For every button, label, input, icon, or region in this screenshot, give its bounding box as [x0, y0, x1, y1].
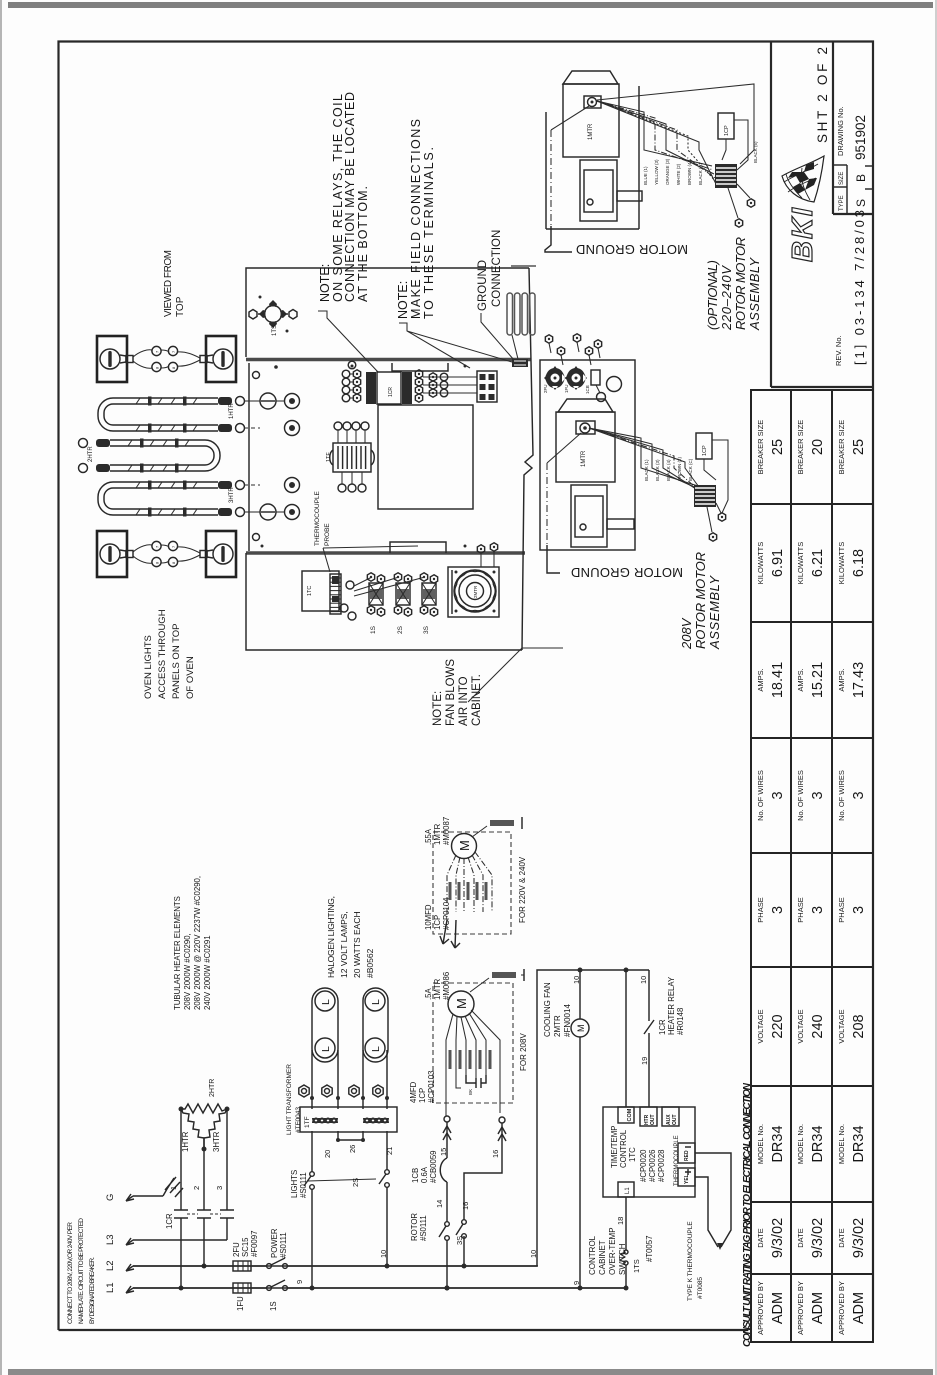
svg-text:208V 2000W @ 220V 2237W #C0290: 208V 2000W @ 220V 2237W #C0290, [193, 876, 202, 1010]
svg-text:1CP: 1CP [702, 445, 708, 456]
svg-text:19: 19 [640, 1057, 649, 1065]
assembly outline 208V [540, 360, 635, 550]
svg-text:3: 3 [851, 791, 867, 799]
oven switch 3S [354, 577, 425, 596]
svg-text:BLACK (C): BLACK (C) [688, 458, 693, 481]
svg-text:20: 20 [323, 1150, 332, 1158]
heater wire 2 [203, 1149, 205, 1210]
wire bundle to plug [589, 428, 698, 486]
oven switch 1S [354, 577, 372, 586]
svg-text:PANELS ON TOP: PANELS ON TOP [171, 624, 182, 700]
svg-text:1TS: 1TS [272, 325, 278, 336]
svg-text:SC15: SC15 [241, 1237, 250, 1257]
svg-text:L: L [320, 999, 332, 1005]
svg-text:1CR: 1CR [165, 1213, 174, 1229]
svg-text:9/3/02: 9/3/02 [810, 1218, 826, 1258]
svg-text:MOTOR GROUND: MOTOR GROUND [576, 242, 688, 257]
cell APPROVED BY row1 [751, 1341, 791, 1343]
svg-text:#T0085: #T0085 [697, 1277, 704, 1299]
junction dot bus9 end [624, 1286, 629, 1291]
svg-text:#CP0026: #CP0026 [648, 1149, 657, 1182]
oven control box (white) [378, 405, 473, 509]
svg-text:15.21: 15.21 [810, 662, 826, 698]
svg-text:ADM: ADM [851, 1292, 867, 1324]
svg-text:ACCESS THROUGH: ACCESS THROUGH [157, 609, 168, 699]
svg-text:18.41: 18.41 [770, 662, 786, 698]
svg-text:TO THESE TERMINALS.: TO THESE TERMINALS. [422, 147, 436, 319]
svg-text:CABINET: CABINET [598, 1240, 607, 1275]
oven panel divider upper [246, 358, 531, 362]
oven panel divider lower [246, 551, 525, 555]
capacitor 1CP (220-240V) [718, 113, 734, 139]
plug terminals [716, 503, 721, 513]
switch LIGHTS 2S [310, 1172, 315, 1177]
svg-text:1FU: 1FU [564, 384, 569, 393]
halogen lamp pair x375 [363, 988, 388, 1062]
svg-text:S: S [854, 199, 868, 207]
svg-text:#R0148: #R0148 [676, 1008, 685, 1035]
svg-text:#CP0028: #CP0028 [657, 1149, 666, 1182]
cell DATE row2 [791, 1273, 832, 1275]
heater element 2HTR [110, 440, 205, 446]
svg-text:MODEL No.: MODEL No. [837, 1124, 846, 1164]
svg-text:220: 220 [770, 1014, 786, 1038]
cell KILOWATTS row1 [751, 621, 791, 623]
svg-text:OUT: OUT [672, 1114, 678, 1125]
svg-text:THERMOCOUPLE: THERMOCOUPLE [314, 490, 321, 546]
svg-text:1CP: 1CP [724, 125, 730, 136]
svg-text:3: 3 [810, 791, 826, 799]
gearbox 220-240V [580, 160, 617, 221]
svg-text:14: 14 [435, 1200, 444, 1208]
svg-text:ROTOR: ROTOR [410, 1213, 419, 1241]
svg-text:DR34: DR34 [810, 1125, 826, 1162]
svg-text:L2: L2 [105, 1260, 116, 1271]
svg-text:2S: 2S [397, 625, 404, 634]
svg-text:KILOWATTS: KILOWATTS [796, 542, 805, 585]
cell AMPS. row3 [832, 737, 873, 739]
svg-text:No. OF WIRES: No. OF WIRES [796, 770, 805, 821]
svg-text:(OPTIONAL): (OPTIONAL) [705, 260, 720, 330]
svg-text:HALOGEN LIGHTING,: HALOGEN LIGHTING, [326, 896, 336, 978]
svg-text:OF OVEN: OF OVEN [185, 656, 196, 699]
svg-text:L: L [370, 1046, 382, 1052]
svg-text:VOLTAGE: VOLTAGE [756, 1009, 765, 1043]
svg-text:L1: L1 [105, 1282, 116, 1293]
svg-text:#CP0020: #CP0020 [639, 1149, 648, 1182]
thermocouple leads [695, 1153, 731, 1247]
svg-text:No. OF WIRES: No. OF WIRES [756, 770, 765, 821]
svg-text:MODEL No.: MODEL No. [796, 1124, 805, 1164]
oven light fixture at 221,554 [206, 531, 236, 577]
svg-text:2FU: 2FU [232, 1242, 241, 1257]
transformer 1TF (oven) [333, 443, 371, 472]
svg-text:1FU: 1FU [236, 1296, 245, 1311]
svg-text:BKI: BKI [787, 207, 819, 262]
oven main section [248, 363, 250, 551]
terminal AUX OUT [662, 1107, 679, 1126]
svg-text:#CB0059: #CB0059 [429, 1150, 438, 1183]
svg-text:#TF0043: #TF0043 [295, 1107, 302, 1133]
tab on main section top [392, 363, 448, 371]
svg-text:TUBULAR HEATER ELEMENTS: TUBULAR HEATER ELEMENTS [173, 896, 182, 1010]
svg-text:3: 3 [770, 791, 786, 799]
ground lead 208V motor [470, 978, 489, 992]
heater wire 3 [226, 1109, 228, 1210]
svg-text:PHASE: PHASE [837, 897, 846, 922]
motor ground dash-dot wire [547, 433, 581, 463]
svg-text:G: G [105, 1194, 116, 1201]
connector plug (208V) [694, 485, 716, 507]
cell No. OF WIRES row2 [791, 852, 832, 854]
svg-text:1HTR: 1HTR [181, 1131, 190, 1152]
svg-text:9/3/02: 9/3/02 [770, 1218, 786, 1258]
cell BREAKER SIZE row3 [832, 503, 873, 505]
svg-text:TOP: TOP [175, 296, 186, 317]
cell DATE row3 [832, 1273, 873, 1275]
halogen lamp pair x323 [312, 988, 338, 1062]
svg-text:12 VOLT LAMPS,: 12 VOLT LAMPS, [339, 911, 349, 978]
fuse 1FU [233, 1283, 251, 1293]
svg-text:SIZE: SIZE [839, 172, 845, 185]
svg-text:No. OF WIRES: No. OF WIRES [837, 770, 846, 821]
svg-text:1CB: 1CB [411, 1168, 420, 1183]
svg-text:1TF: 1TF [326, 452, 332, 462]
svg-text:1S: 1S [269, 1301, 278, 1311]
svg-text:17.43: 17.43 [851, 662, 867, 698]
svg-text:POWER: POWER [270, 1228, 279, 1258]
svg-text:1CP: 1CP [418, 1088, 427, 1103]
COM feed wire [625, 970, 627, 1107]
terminal YEL + [678, 1168, 695, 1186]
svg-text:1MTR: 1MTR [588, 123, 594, 140]
svg-text:FOR 220V & 240V: FOR 220V & 240V [518, 856, 527, 923]
exit arrows to 15/16 [440, 920, 460, 948]
svg-text:0.6A: 0.6A [420, 1166, 429, 1183]
svg-text:208V 2000W #C0290,: 208V 2000W #C0290, [183, 933, 192, 1010]
cell APPROVED BY row2 [791, 1341, 832, 1343]
control 1TC (oven) [302, 571, 339, 611]
svg-text:CONTROL: CONTROL [588, 1235, 597, 1275]
cell MODEL No. row2 [791, 1201, 832, 1203]
svg-text:CONNECTION: CONNECTION [491, 230, 503, 307]
svg-text:NOTE:: NOTE: [396, 281, 410, 319]
svg-text:ADM: ADM [770, 1292, 786, 1324]
svg-text:208: 208 [851, 1014, 867, 1038]
svg-text:1: 1 [169, 1186, 178, 1190]
svg-text:2: 2 [192, 1186, 201, 1190]
svg-text:240: 240 [810, 1014, 826, 1038]
motor fan wires [446, 1010, 500, 1113]
svg-text:10: 10 [639, 976, 648, 984]
svg-text:B: B [854, 174, 868, 182]
heater relay contact 1CR [644, 970, 654, 1107]
svg-text:MOTOR GROUND: MOTOR GROUND [571, 565, 683, 580]
oven top panel (1TS section) [246, 268, 529, 357]
oven light fixture at 221,359 [206, 336, 236, 382]
bus 10 [133, 1265, 537, 1267]
cell BREAKER SIZE row1 [751, 503, 791, 505]
fuse 1FU (assembly) [565, 366, 587, 390]
oven switch 2S [354, 577, 399, 591]
svg-text:9/3/02: 9/3/02 [851, 1218, 867, 1258]
svg-text:2MTR: 2MTR [473, 585, 478, 598]
cell PHASE row1 [751, 966, 791, 968]
svg-text:10: 10 [572, 976, 581, 984]
svg-text:2HTR: 2HTR [88, 446, 94, 462]
bus 9 [133, 1287, 626, 1289]
svg-text:21: 21 [385, 1147, 394, 1155]
svg-text:LIGHT TRANSFORMER: LIGHT TRANSFORMER [286, 1064, 293, 1135]
svg-text:.55A: .55A [424, 828, 433, 845]
svg-text:ORANGE (3): ORANGE (3) [665, 158, 670, 185]
supply wire L2 [133, 1265, 538, 1267]
svg-text:BROWN (2): BROWN (2) [677, 457, 682, 482]
lamp leads [312, 1050, 387, 1109]
svg-text:APPROVED BY: APPROVED BY [756, 1281, 765, 1335]
svg-text:2FU: 2FU [543, 384, 548, 393]
motor 1MTR 208V (schematic) [448, 991, 474, 1017]
cell VOLTAGE row2 [791, 1085, 832, 1087]
svg-text:220–240V: 220–240V [719, 265, 734, 331]
scanner grey bar bottom [8, 1369, 933, 1375]
svg-text:10MFD: 10MFD [424, 904, 433, 930]
svg-text:#S0111: #S0111 [299, 1172, 308, 1198]
cell No. OF WIRES row3 [832, 852, 873, 854]
svg-text:25: 25 [770, 439, 786, 455]
svg-text:3: 3 [851, 906, 867, 914]
terminal HTR OUT [640, 1107, 657, 1126]
svg-text:BK: BK [468, 1089, 473, 1095]
svg-text:1CP: 1CP [433, 915, 442, 930]
resistor 3HTR (delta right) [204, 1109, 227, 1147]
svg-text:AMPS.: AMPS. [796, 668, 805, 691]
terminal RED - [678, 1143, 695, 1163]
svg-text:M: M [454, 998, 469, 1009]
long lead to BLACK (5) [597, 84, 754, 164]
svg-text:YEL: YEL [684, 1174, 690, 1184]
lamp jumper wires and bead terminals [133, 350, 200, 368]
resistor 2HTR (delta top) [181, 1104, 227, 1113]
svg-text:10: 10 [379, 1250, 388, 1258]
heater feedthrough terminals on oven wall [244, 400, 260, 402]
svg-text:LIGHTS: LIGHTS [290, 1170, 299, 1198]
svg-text:20 WATTS EACH: 20 WATTS EACH [352, 911, 362, 978]
terminal 8 [322, 1085, 332, 1097]
cell DATE row1 [751, 1273, 791, 1275]
svg-text:AMPS.: AMPS. [837, 668, 846, 691]
svg-text:BLUE (1): BLUE (1) [643, 166, 648, 185]
switch 3S pole A [445, 1222, 450, 1227]
terminal L1 [618, 1182, 634, 1197]
svg-text:L1: L1 [625, 1187, 631, 1194]
svg-text:951902: 951902 [853, 115, 868, 160]
title block bottom border [771, 386, 873, 388]
fuse 2FU (assembly) [544, 366, 566, 390]
svg-text:AT THE BOTTOM.: AT THE BOTTOM. [356, 186, 370, 302]
svg-text:VOLTAGE: VOLTAGE [796, 1009, 805, 1043]
field connection terminal block 1TB [477, 371, 497, 402]
svg-text:TYPE K THERMOCOUPLE: TYPE K THERMOCOUPLE [687, 1221, 694, 1301]
svg-text:#S0111: #S0111 [419, 1215, 428, 1241]
svg-text:3: 3 [770, 906, 786, 914]
svg-text:PROBE: PROBE [324, 523, 331, 546]
svg-text:2S: 2S [351, 1178, 360, 1187]
tick S|B [865, 188, 873, 190]
rating table row 2 outline [791, 390, 832, 1342]
title block left border [770, 41, 772, 387]
svg-text:16: 16 [461, 1202, 470, 1210]
resistor 1HTR (delta left) [181, 1109, 204, 1147]
svg-text:#T0057: #T0057 [645, 1236, 654, 1262]
cell KILOWATTS row2 [791, 621, 832, 623]
cell KILOWATTS row3 [832, 621, 873, 623]
BKI logo [782, 156, 824, 262]
svg-text:DATE: DATE [837, 1228, 846, 1247]
svg-text:240V 2000W #C0291: 240V 2000W #C0291 [203, 935, 212, 1010]
svg-text:ADM: ADM [810, 1292, 826, 1324]
svg-text:2HTR: 2HTR [209, 1079, 216, 1097]
supply wire G [133, 1195, 163, 1197]
svg-text:CONNECTION MAY BE LOCATED: CONNECTION MAY BE LOCATED [343, 92, 357, 302]
terminal 11 [349, 1085, 359, 1097]
svg-text:3HTR: 3HTR [212, 1131, 221, 1152]
svg-text:BREAKER SIZE: BREAKER SIZE [796, 420, 805, 475]
spare hole [607, 377, 622, 392]
svg-text:9: 9 [295, 1280, 304, 1284]
wire 15/14 with breaker and 3S [444, 1116, 450, 1122]
svg-text:1TC: 1TC [628, 1147, 637, 1162]
cell APPROVED BY row3 [832, 1341, 873, 1343]
thermostat 1TS [265, 306, 282, 323]
svg-text:KILOWATTS: KILOWATTS [837, 542, 846, 585]
motor 1MTR 220-240V (schematic) [452, 834, 477, 859]
svg-text:3S: 3S [423, 625, 430, 634]
svg-text:3S: 3S [455, 1236, 464, 1245]
svg-text:BREAKER SIZE: BREAKER SIZE [756, 420, 765, 475]
svg-text:RED: RED [684, 1150, 690, 1161]
ground symbol [163, 1177, 183, 1197]
svg-text:APPROVED BY: APPROVED BY [837, 1281, 846, 1335]
svg-text:TIME/TEMP: TIME/TEMP [610, 1126, 619, 1168]
svg-text:ASSEMBLY: ASSEMBLY [707, 575, 722, 650]
svg-text:16: 16 [491, 1150, 500, 1158]
switch POWER #S0111 [266, 1261, 288, 1270]
svg-text:CONNECT TO 208V, 220V,OR 240V: CONNECT TO 208V, 220V,OR 240V PER [67, 1222, 74, 1324]
svg-text:CONSULT UNIT RATING TAG PRIOR: CONSULT UNIT RATING TAG PRIOR TO ELECTRI… [742, 1082, 753, 1347]
cell AMPS. row2 [791, 737, 832, 739]
svg-text:#B0562: #B0562 [365, 948, 375, 978]
svg-text:6.91: 6.91 [770, 549, 786, 577]
cell BREAKER SIZE row2 [791, 503, 832, 505]
svg-text:OVEN LIGHTS: OVEN LIGHTS [143, 635, 154, 699]
svg-text:TYPE: TYPE [839, 195, 845, 211]
svg-text:1MTR: 1MTR [581, 450, 587, 467]
svg-text:#S0111: #S0111 [279, 1232, 288, 1258]
svg-text:VIEWED FROM: VIEWED FROM [163, 250, 174, 317]
wires below transformer [312, 1131, 387, 1172]
svg-text:BLACK (4): BLACK (4) [666, 459, 671, 481]
svg-text:3HTR: 3HTR [229, 487, 235, 503]
svg-text:NOTE:: NOTE: [432, 691, 444, 726]
svg-text:BROWN (4): BROWN (4) [687, 161, 692, 186]
switch 1S [266, 1283, 288, 1292]
svg-text:CONTROL: CONTROL [619, 1129, 628, 1168]
page edge shading left [0, 0, 2, 1375]
oven cut break edge [522, 268, 533, 650]
svg-text:#F0097: #F0097 [250, 1231, 259, 1257]
svg-text:ASSEMBLY: ASSEMBLY [747, 257, 762, 331]
svg-text:L: L [370, 999, 382, 1005]
svg-text:FOR 208V: FOR 208V [519, 1033, 528, 1071]
svg-text:15: 15 [439, 1148, 448, 1156]
svg-text:18: 18 [616, 1217, 625, 1225]
motor 1MTR 220-240V [563, 71, 618, 84]
blower motor 3MTR [448, 567, 499, 617]
wire 16 [499, 1117, 505, 1123]
rating table row 1 outline [751, 390, 791, 1342]
tab on bottom section top [390, 542, 446, 553]
cell MODEL No. row1 [751, 1201, 791, 1203]
svg-text:1TC: 1TC [307, 586, 313, 596]
cooling fan motor 2MTR [579, 970, 581, 1019]
junction dots power [179, 1286, 184, 1291]
terminal 13 [373, 1085, 383, 1097]
svg-text:[1] 03-134 7/28/03: [1] 03-134 7/28/03 [852, 210, 867, 365]
cell AMPS. row1 [751, 737, 791, 739]
title block divider rev/type [833, 213, 873, 215]
page edge shading right [935, 0, 937, 1375]
svg-text:4MFD: 4MFD [409, 1081, 418, 1103]
motor ground dash-dot (220-240V) [551, 106, 589, 130]
svg-text:REV. No.: REV. No. [834, 335, 843, 366]
svg-text:3: 3 [810, 906, 826, 914]
capacitor 1CP (208V) [696, 433, 712, 459]
svg-text:.5A: .5A [424, 987, 433, 1000]
terminal COM [618, 1107, 634, 1123]
svg-text:NOTE:: NOTE: [318, 264, 332, 302]
over-temp switch 1TS wire [625, 1197, 627, 1288]
svg-text:1CR: 1CR [388, 387, 394, 397]
connector plug (220-240V) [715, 164, 737, 188]
svg-text:1S: 1S [370, 625, 377, 634]
svg-text:DATE: DATE [796, 1228, 805, 1247]
scanner grey bar top [8, 2, 933, 8]
ground lug [512, 335, 518, 359]
ground connection coil (grey) [507, 293, 513, 335]
svg-text:BY DESIGNATED BREAKER.: BY DESIGNATED BREAKER. [89, 1257, 96, 1324]
circuit breaker 1CB [440, 1158, 447, 1182]
svg-text:FAN BLOWS: FAN BLOWS [445, 659, 457, 726]
wires 1CR to field terminal block [423, 376, 477, 378]
supply wire L3 [133, 1239, 227, 1241]
switch 3S pole B [462, 1220, 467, 1225]
svg-text:#CP0104: #CP0104 [442, 897, 451, 930]
svg-text:APPROVED BY: APPROVED BY [796, 1281, 805, 1335]
svg-text:OVER-TEMP: OVER-TEMP [608, 1227, 617, 1275]
svg-text:6.18: 6.18 [851, 549, 867, 577]
ground lead 220-240V motor [472, 826, 487, 837]
svg-text:1CR: 1CR [658, 1019, 667, 1035]
fuse 2FU [233, 1261, 251, 1271]
svg-text:BLACK (C): BLACK (C) [698, 162, 703, 185]
title block divider (logo row / rev row) [832, 41, 834, 214]
oven bottom section [246, 553, 522, 650]
contactor 1CR contacts [174, 1210, 188, 1218]
svg-text:208V: 208V [679, 617, 694, 650]
svg-text:L3: L3 [105, 1234, 116, 1245]
capacitor 1CP mark [466, 1075, 486, 1088]
